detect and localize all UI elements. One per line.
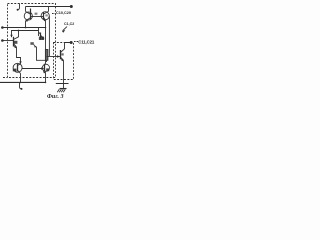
svg-text:C10,C20: C10,C20: [56, 11, 71, 15]
svg-text:C11,C21: C11,C21: [78, 39, 95, 44]
svg-text:Фиг. 3: Фиг. 3: [47, 94, 64, 100]
svg-text:C1,C2: C1,C2: [64, 22, 74, 26]
